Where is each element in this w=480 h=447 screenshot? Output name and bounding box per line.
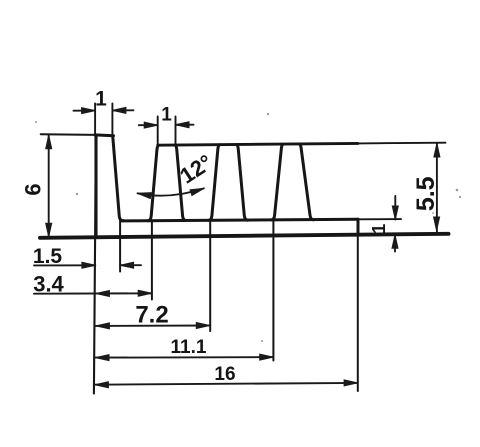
svg-text:7.2: 7.2 xyxy=(135,302,168,329)
slot 3 right wall xyxy=(300,144,314,220)
top face line of slotted block xyxy=(158,143,358,145)
slot 1 left wall xyxy=(148,145,159,220)
extension line at x=358 for dim 16 xyxy=(357,234,359,391)
dim 1 (left fin top width): lines and outside arrows xyxy=(74,110,96,112)
left fin left edge + long extension line down to bottom dims xyxy=(94,136,96,394)
extension line at x=120 for dim 1.5 xyxy=(119,218,121,272)
svg-text:16: 16 xyxy=(214,364,235,385)
svg-text:3.4: 3.4 xyxy=(33,272,64,297)
top face extension line to 5.5 dimension xyxy=(358,142,446,145)
extension line at x=273 for dim 11.1 xyxy=(272,220,274,360)
bottom edge of profile + extensions both sides xyxy=(40,234,449,238)
dim 1 (base thickness, right): outside arrows above and below xyxy=(394,196,396,220)
base top surface line (groove bottoms) xyxy=(121,219,358,221)
svg-text:1.5: 1.5 xyxy=(33,245,63,268)
dim 7.2: line with inside arrows xyxy=(96,325,210,327)
dim 5.5: vertical line with inside arrows xyxy=(436,143,438,233)
dim 16: line with inside arrows xyxy=(95,383,358,385)
right edge of profile xyxy=(357,219,360,235)
slot 1 right wall xyxy=(175,145,186,220)
left fin top edge + extension line for dim 6 xyxy=(41,133,96,136)
svg-text:1: 1 xyxy=(95,88,107,111)
slot 2 right wall xyxy=(237,145,248,221)
svg-text:1: 1 xyxy=(161,105,172,126)
extension lines for top-left dim 1 xyxy=(94,104,96,135)
left fin right tapered edge xyxy=(113,136,124,221)
slot 3 left wall xyxy=(271,144,283,220)
extension lines for second dim 1 xyxy=(157,117,159,145)
dim 11.1: line with inside arrows xyxy=(95,356,273,359)
svg-text:6: 6 xyxy=(21,183,46,195)
svg-text:11.1: 11.1 xyxy=(171,337,207,358)
slot 2 left wall xyxy=(209,145,220,221)
svg-text:1: 1 xyxy=(369,224,389,234)
dim 3.4: line with inside arrows xyxy=(34,292,152,294)
scan noise specks xyxy=(35,113,461,342)
dim 1.5: leader line and outside arrows xyxy=(34,264,95,266)
dim 6: vertical line with inside arrows xyxy=(48,135,50,237)
base top extension line to right (for small 1 dim) xyxy=(358,218,401,220)
extension line at x=210 for dim 7.2 xyxy=(209,221,211,332)
svg-text:5.5: 5.5 xyxy=(412,176,440,211)
dim 1 (slot top width): lines and outside arrows xyxy=(139,124,158,126)
extension line at x=152 for dim 3.4 xyxy=(151,221,153,300)
dim 12 degrees: arc with arrows xyxy=(138,188,204,195)
